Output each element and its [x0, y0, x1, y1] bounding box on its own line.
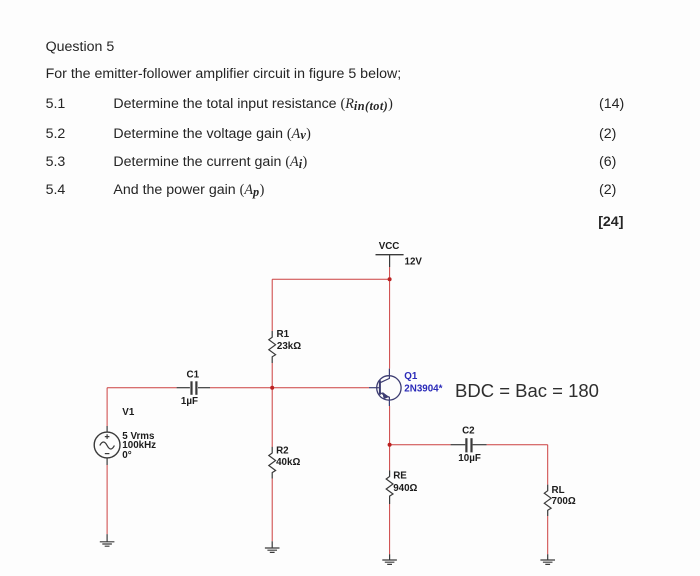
svg-text:23kΩ: 23kΩ	[277, 341, 301, 352]
svg-text:RL: RL	[552, 485, 565, 496]
svg-text:10µF: 10µF	[458, 453, 481, 464]
svg-text:12V: 12V	[405, 257, 423, 268]
svg-text:C2: C2	[462, 425, 475, 436]
svg-text:V1: V1	[122, 407, 135, 418]
svg-text:940Ω: 940Ω	[393, 483, 417, 494]
svg-text:Q1: Q1	[404, 371, 418, 382]
svg-text:R2: R2	[276, 446, 289, 457]
svg-text:VCC: VCC	[379, 241, 400, 252]
svg-text:700Ω: 700Ω	[552, 496, 576, 507]
svg-text:C1: C1	[187, 369, 200, 380]
svg-text:1µF: 1µF	[181, 396, 198, 407]
svg-text:RE: RE	[393, 471, 407, 482]
svg-text:0°: 0°	[122, 450, 131, 461]
svg-text:40kΩ: 40kΩ	[276, 457, 300, 468]
svg-text:2N3904*: 2N3904*	[404, 383, 442, 394]
svg-text:R1: R1	[277, 329, 290, 340]
